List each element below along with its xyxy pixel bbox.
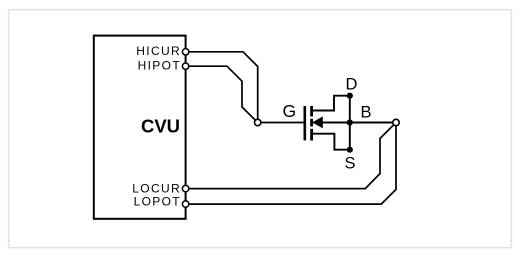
wire B node to LOPOT (186, 123, 396, 205)
junction dot S (347, 147, 353, 153)
terminal LOPOT (182, 201, 188, 207)
junction dot B (347, 119, 353, 125)
CVU instrument box (94, 36, 186, 219)
wire body lead B (313, 122, 397, 124)
wire drain lead to D (312, 96, 350, 111)
node B (open circle at body tie) (393, 119, 399, 125)
wire gate lead: node G to MOSFET gate (258, 122, 304, 124)
transistor Q1 channel segment drain (310, 106, 313, 117)
wire source lead to S (312, 134, 350, 150)
junction dot D (347, 93, 353, 99)
svg-text:LOCUR: LOCUR (132, 182, 181, 196)
transistor Q1 body arrow (312, 116, 323, 128)
terminal HICUR (182, 49, 188, 55)
svg-text:HIPOT: HIPOT (138, 59, 181, 73)
svg-text:D: D (345, 75, 357, 93)
svg-text:HICUR: HICUR (136, 44, 181, 58)
svg-text:S: S (344, 155, 355, 173)
svg-text:G: G (282, 101, 296, 121)
transistor Q1 (n-MOSFET) gate bar (303, 106, 306, 140)
transistor Q1 channel segment body (310, 119, 313, 127)
svg-text:B: B (360, 103, 371, 121)
wire B node to LOCUR (186, 123, 396, 189)
svg-text:LOPOT: LOPOT (134, 195, 181, 209)
svg-text:CVU: CVU (141, 116, 180, 137)
wire D-B-S tie vertical (349, 96, 351, 150)
transistor Q1 channel segment source (310, 129, 313, 141)
wire HICUR to gate node (186, 52, 258, 123)
wire HIPOT to gate node (186, 66, 258, 122)
node G (open circle at gate) (255, 119, 261, 125)
terminal HIPOT (182, 63, 188, 69)
terminal LOCUR (182, 185, 188, 191)
